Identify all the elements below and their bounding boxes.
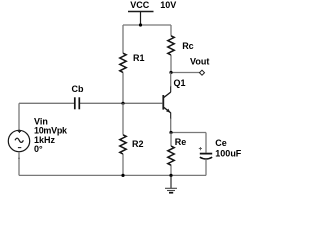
resistor Rc [168, 25, 174, 73]
svg-text:100uF: 100uF [215, 148, 242, 158]
svg-text:Q1: Q1 [174, 78, 186, 88]
svg-text:Re: Re [175, 137, 187, 147]
power VCC symbol [128, 12, 154, 26]
node junction emitter/Re/Ce [169, 131, 172, 134]
node junction collector [169, 71, 172, 74]
capacitor Cb [19, 97, 79, 109]
svg-text:10V: 10V [160, 0, 176, 10]
node junction base/R1/R2 [121, 102, 124, 105]
resistor Re [168, 133, 174, 176]
source Vin [8, 103, 29, 175]
svg-text:Vout: Vout [190, 56, 209, 66]
svg-text:0°: 0° [34, 144, 43, 154]
transistor Q1 [163, 73, 170, 133]
svg-text:Ce: Ce [215, 138, 227, 148]
capacitor Ce polarized [199, 133, 212, 176]
wire bottom rail [19, 174, 206, 176]
svg-text:R2: R2 [132, 139, 144, 149]
node junction R2 bottom [121, 174, 124, 177]
resistor R1 [120, 25, 126, 103]
wire top rail R1 to Rc [123, 24, 171, 26]
ground [165, 175, 177, 192]
wire base rail [80, 102, 163, 104]
node junction VCC/top rail [139, 23, 142, 26]
svg-text:R1: R1 [133, 53, 145, 63]
svg-text:Cb: Cb [72, 84, 84, 94]
terminal Vout diamond [200, 70, 205, 75]
svg-text:VCC: VCC [130, 0, 150, 10]
svg-text:Rc: Rc [182, 41, 194, 51]
resistor R2 [120, 103, 126, 175]
node junction Re/ground bottom [169, 174, 172, 177]
wire emitter node to Ce [171, 132, 206, 134]
wire collector node to Vout terminal [171, 72, 200, 74]
